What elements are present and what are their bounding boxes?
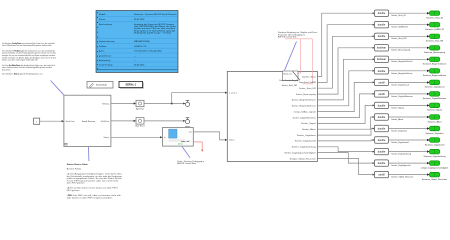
annotation: left description text (2, 42, 57, 76)
svg-text:RXData: RXData (102, 102, 110, 105)
svg-text:Sortier_Start_NR: Sortier_Start_NR (282, 84, 298, 87)
data type conversion block row 10: double (375, 114, 389, 120)
wire: row 10 to outport (389, 116, 430, 118)
wire: row 8 to outport (389, 93, 430, 95)
data type conversion block row 7: uint8 (375, 79, 389, 85)
signal label Sortier_Objekt_Flausche (391, 176, 414, 179)
svg-text:geändert von:: geändert von: (99, 54, 112, 57)
svg-text:DatenFeld_SollNR: DatenFeld_SollNR (299, 81, 316, 84)
svg-text:Sortier_Abort: Sortier_Abort (302, 128, 316, 131)
big block output port 12 label (295, 140, 317, 143)
outport (green) Sortieren_Digitalezahl (425, 138, 445, 147)
wire: row 6 to outport (389, 70, 430, 72)
svg-text:Beschreibung:: Beschreibung: (99, 23, 113, 26)
outport (green) Sortieren_DigitaleLauf (425, 80, 445, 89)
wire: row 14 to outport (389, 162, 430, 164)
svg-text:Sortieren_DigitaleLauf: Sortieren_DigitaleLauf (425, 86, 445, 89)
big block output port 8 label (293, 116, 316, 119)
subsystem: camera viewer (blue icon) (163, 128, 194, 147)
data type conversion block row 5: boolean (375, 56, 389, 62)
svg-text:ASPICE Control Hub: ASPICE Control Hub (278, 36, 297, 39)
svg-text:Serial Defaults: Serial Defaults (96, 84, 107, 87)
svg-text:FIFO gelesen.: FIFO gelesen. (67, 190, 80, 192)
terminator 2 (183, 118, 190, 128)
block: SERIAL-1 (with drop shadow) (119, 81, 144, 88)
svg-text:double: double (378, 151, 386, 154)
svg-text:Sortier_Signal: Sortier_Signal (301, 122, 316, 125)
big block output port 3 label (299, 87, 316, 90)
table line number ticks (97, 12, 98, 69)
svg-text:Sortieren_Bevorzugung: Sortieren_Bevorzugung (424, 51, 445, 54)
big block output port 13 label (292, 146, 316, 149)
signal label Sortier_DigitaleLauf (391, 83, 409, 86)
svg-text:double: double (378, 35, 386, 38)
big block output port 1 label (302, 75, 316, 78)
svg-text:Tim Schreiber, Christoph Barr: Tim Schreiber, Christoph Barr (134, 50, 162, 53)
svg-text:sortiger_Digitalgeschwindigkei: sortiger_Digitalgeschwindigkeit (421, 166, 449, 169)
svg-text:uint8: uint8 (378, 81, 385, 84)
wire: row 15 to outport (389, 173, 430, 175)
data type conversion block row 2: double (375, 22, 389, 28)
wire: big-block port 12 to row 12 (317, 139, 374, 141)
svg-text:Der Interfaces Status gibt die: Der Interfaces Status gibt die Empfangss… (2, 73, 43, 76)
outport (green) Sortieren_SollNR_IN (425, 22, 444, 31)
wire: byte block2 to terminator 2 (144, 120, 184, 122)
signal label Sortier_Signal (391, 106, 404, 109)
svg-text:Sortier_Digitalezahl: Sortier_Digitalezahl (295, 140, 317, 143)
wire: row 5 to outport (389, 58, 430, 60)
svg-text:pass_fail: pass_fail (181, 141, 189, 143)
annotation: subsystem label (177, 160, 204, 165)
annotation connector: left text to Serial Receive corner (blue) (51, 81, 64, 95)
annotation connector: subsystem to label (blue) (182, 147, 190, 158)
svg-text:SerWrtData: SerWrtData (101, 120, 110, 123)
svg-text:Sortier_Start: Sortier_Start (302, 75, 316, 78)
svg-text:Bearbeitung:: Bearbeitung: (99, 59, 111, 62)
outport (green) Sortieren_Digitalrichtung (424, 149, 446, 158)
svg-text:Sortier_DigitaleNummer: Sortier_DigitaleNummer (391, 95, 413, 98)
signal label Sortier_BeginnInitKreuz (391, 72, 412, 75)
svg-text:double: double (378, 12, 386, 15)
svg-text:Sortier_SollNR_IN: Sortier_SollNR_IN (391, 26, 408, 29)
svg-text:Sortier_Start_IN: Sortier_Start_IN (391, 14, 406, 17)
annotation: status return value text (67, 163, 123, 199)
wire: subsystem out to big block Daten port (193, 132, 227, 141)
big block output port 2 label (299, 81, 316, 84)
outport (green) Sortieren_Signal (427, 103, 442, 112)
svg-text:Sortier_Digitalezahl: Sortier_Digitalezahl (391, 141, 409, 144)
svg-text:Sortier_Objekt_Flausche: Sortier_Objekt_Flausche (391, 176, 414, 179)
outport (green) Sortieren_Digitalezu (425, 126, 443, 135)
svg-text:Sortier_Bevorzugung: Sortier_Bevorzugung (391, 49, 410, 52)
svg-text:Sortieren_Abort: Sortieren_Abort (427, 120, 441, 123)
svg-text:Serial Data: Serial Data (66, 120, 76, 123)
svg-text:Toolbox:: Toolbox: (99, 46, 107, 48)
wire: big-block port 3 to row 3 (317, 35, 374, 88)
corner tag box on big block (279, 71, 300, 87)
wire: big-block port 1 to row 1 (317, 12, 374, 76)
signal label Sortier_Start_IN (391, 14, 406, 17)
annotation connector: Serial Receive to status text (blue) (88, 147, 90, 161)
svg-text:Sortier_Digitalezu: Sortier_Digitalezu (391, 129, 407, 132)
svg-text:Sortier_Bevorzugung: Sortier_Bevorzugung (296, 93, 316, 96)
data type conversion block row 3: double (375, 33, 389, 39)
annotation table (blue info box) (96, 11, 178, 73)
svg-text:konnten.: konnten. (2, 69, 11, 72)
svg-text:Sortier_DigitaleLauf: Sortier_DigitaleLauf (391, 83, 409, 86)
wire: row 4 to outport (389, 47, 430, 49)
svg-text:Sortieren_SollNR_IN: Sortieren_SollNR_IN (425, 28, 444, 31)
svg-text:uint8: uint8 (378, 174, 385, 177)
svg-text:Daten aus dem vorherigen Verbi: Daten aus dem vorherigen Verbindet voll. (2, 59, 38, 62)
svg-text:Sortieren_Digitalezahl: Sortieren_Digitalezahl (425, 143, 445, 146)
svg-text:Letzte Prüfung:: Letzte Prüfung: (99, 64, 113, 67)
data type conversion block row 1: double (375, 10, 389, 16)
svg-text:merge_InitAck_signale: merge_InitAck_signale (294, 110, 317, 113)
svg-text:Sortieren_DigitaleNummer: Sortieren_DigitaleNummer (423, 97, 447, 100)
svg-text:Sortieren_Digitalrichtung: Sortieren_Digitalrichtung (424, 155, 446, 158)
wire: row 12 to outport (389, 139, 430, 141)
wire: dangling (red) from subsystem (193, 142, 203, 152)
svg-text:Status Return Value: Status Return Value (67, 163, 89, 166)
svg-text:09.05.2023: 09.05.2023 (134, 65, 145, 67)
data type conversion block row 6: double (375, 68, 389, 74)
svg-text:Sortier_Signal: Sortier_Signal (391, 106, 404, 109)
wire: row 11 to outport (389, 127, 430, 129)
big block output port 4 label (296, 93, 316, 96)
signal label Sortier_BeginnInitDurch (391, 60, 412, 63)
svg-text:Daten: Daten (229, 139, 234, 142)
svg-text:eines Datenstromes aus der Ver: eines Datenstromes aus der Verbindungsfä… (2, 44, 52, 47)
svg-text:Sortier_BeginnInitKreuz: Sortier_BeginnInitKreuz (391, 72, 412, 75)
data type conversion block row 12: double (375, 137, 389, 143)
big block output port 10 label (302, 128, 316, 131)
svg-text:Status: Status (104, 136, 110, 139)
svg-text:Sortier_Digitalezu: Sortier_Digitalezu (297, 134, 316, 137)
data type conversion block row 11: double (375, 125, 389, 131)
signal label Sortier_Bevorzugung (391, 49, 410, 52)
wire: big-block port 10 to row 10 (317, 116, 374, 129)
signal label Sortier_SollNR_IN (391, 26, 408, 29)
wire: big-block port 4 to row 4 (317, 47, 374, 94)
svg-text:Sortieren_Digitalezu: Sortieren_Digitalezu (425, 132, 443, 135)
big block output port 14 label (284, 151, 316, 154)
wire: big-block port 5 to row 5 (317, 58, 374, 100)
svg-text:Sortier_Start_NR: Sortier_Start_NR (391, 37, 407, 40)
wire: row 7 to outport (389, 81, 430, 83)
outport (green) Sortieren_BeginnInitKreuz (423, 69, 446, 78)
svg-text:Sortier_BeginnInitDurch: Sortier_BeginnInitDurch (292, 99, 316, 102)
svg-text:DatenTransferNegativ: DatenTransferNegativ (279, 79, 298, 82)
svg-text:Byte Rev1: Byte Rev1 (135, 125, 145, 128)
wire: row 3 to outport (389, 35, 430, 37)
svg-text:Sortier_Abort: Sortier_Abort (391, 118, 403, 121)
wire: big-block port 6 to row 6 (317, 70, 374, 106)
byte reversal block 1 (136, 100, 144, 110)
svg-text:double: double (378, 104, 386, 107)
data type conversion block row 15: uint8 (375, 171, 389, 177)
signal label Sortier_DigitaleNummer (391, 95, 413, 98)
big demux subsystem block (227, 71, 317, 161)
outport (green) Sortieren_Bevorzugung (424, 46, 445, 55)
outport (green) Sortieren_Start_IN (426, 11, 443, 20)
annotation connectors (red) (285, 39, 313, 84)
wire: big-block port 15 to row 15 (317, 159, 374, 176)
svg-text:Sortier_BeginnInitKreuz: Sortier_BeginnInitKreuz (292, 105, 316, 108)
svg-text:s_cam_s: s_cam_s (229, 93, 237, 95)
wire: big-block port 13 to row 13 (317, 147, 374, 153)
outport (green) Sortieren_Abort (427, 115, 441, 124)
svg-text:Datum:: Datum: (99, 18, 106, 21)
svg-text:Sortieren_Signal: Sortieren_Signal (427, 109, 442, 112)
data type conversion block row 9: double (375, 102, 389, 108)
big block output port 7 label (294, 110, 317, 113)
svg-text:09.05.2023: 09.05.2023 (134, 19, 145, 21)
big block output port 11 label (297, 134, 316, 137)
svg-text:Sortier_Digitalrichtung: Sortier_Digitalrichtung (292, 146, 316, 149)
svg-text:0: Kein Fehler: 0: Kein Fehler (67, 168, 82, 171)
svg-text:SERIAL-1: SERIAL-1 (126, 84, 137, 87)
svg-text:[5ms]: [5ms] (178, 144, 183, 146)
big block output port 15 label (290, 157, 316, 160)
svg-text:MATLAB R2019b: MATLAB R2019b (134, 40, 151, 43)
wire: row 2 to outport (389, 24, 430, 26)
svg-text:(Puffergröße gut NK Länge: ~1: (Puffergröße gut NK Länge: ~1 Paket) (134, 32, 171, 35)
svg-text:Sortiger_Objekt_Flauschen: Sortiger_Objekt_Flauschen (290, 157, 316, 160)
wire: byte block1 to terminator 1, tee to big block (144, 92, 227, 105)
block: Serial Defaults (serial configuration) (87, 81, 113, 88)
wire: big-block port 9 to row 9 (317, 104, 374, 123)
svg-text:Autor:: Autor: (99, 50, 105, 53)
terminator 1 (183, 100, 189, 106)
byte reversal block 2 (135, 118, 145, 128)
wire: inport to Serial Receive (40, 120, 64, 122)
signal label Sortier_Abort (391, 118, 403, 121)
svg-text:Sortieren_Start_IN: Sortieren_Start_IN (426, 17, 443, 20)
svg-text:uint8: uint8 (378, 93, 385, 96)
svg-text:out: out (189, 131, 192, 134)
svg-text:Modell:: Modell: (99, 14, 106, 16)
svg-text:Serial Receive: Serial Receive (82, 120, 96, 123)
svg-text:double: double (378, 139, 386, 142)
svg-text:Sortieren_Objekt_Flauschen: Sortieren_Objekt_Flauschen (422, 178, 447, 181)
data type conversion block row 14: double (375, 160, 389, 166)
svg-text:double: double (378, 116, 386, 119)
wire: Serial Receive Status to camera subsystem (111, 136, 163, 138)
svg-text:Sortieren_BeginnInitKreuz: Sortieren_BeginnInitKreuz (423, 74, 446, 77)
svg-text:ASPICE Control Base: ASPICE Control Base (177, 162, 197, 165)
outport (green) Sortieren_DigitaleNummer (423, 92, 447, 101)
svg-text:Sortier_Digitalrichtung: Sortier_Digitalrichtung (391, 153, 411, 156)
big block output port 6 label (292, 105, 316, 108)
svg-text:boolean: boolean (377, 58, 387, 61)
svg-text:Sortier_BeginnInitDurch: Sortier_BeginnInitDurch (391, 60, 412, 63)
wire: big-block port 11 to row 11 (317, 128, 374, 136)
wire: big-block port 2 to row 2 (317, 24, 374, 83)
wire: Serial Receive SerWrtData to byte block 2 (111, 120, 136, 122)
wire: row 13 to outport (389, 150, 430, 152)
svg-text:Sortier_Digitalgeschw: Sortier_Digitalgeschw (391, 164, 411, 167)
wire: row 1 to outport (389, 12, 430, 14)
signal label Sortier_Digitalgeschw (391, 164, 411, 167)
svg-text:Sortieren - Kamera MV222 Seria: Sortieren - Kamera MV222 Serial Receive (134, 13, 177, 16)
wire: big-block port 8 to row 8 (317, 93, 374, 118)
svg-text:alle Daten in den FIFO kopiert: alle Daten in den FIFO kopiert werden. (67, 196, 114, 199)
wire: big-block port 14 to row 14 (317, 153, 374, 165)
wire: row 9 to outport (389, 104, 430, 106)
outport (green) Sortieren_Objekt_Flauschen (422, 172, 447, 181)
data type conversion block row 8: uint8 (375, 91, 389, 97)
signal label Sortier_Digitalezu (391, 129, 407, 132)
outport (green) Sortieren_BeginnInitDurch (423, 57, 446, 66)
wire: big-block port 7 to row 7 (317, 81, 374, 111)
block: Serial Receive (64, 95, 111, 146)
big block output port 5 label (292, 99, 316, 102)
svg-text:Byte Rev: Byte Rev (136, 107, 144, 110)
svg-text:xSPACE VTS: xSPACE VTS (134, 45, 147, 48)
inport block 1 (34, 118, 40, 124)
outport (green) sortiger_Digitalgeschwindigkeit (421, 161, 449, 170)
big block output port 9 label (301, 122, 316, 125)
svg-text:double: double (378, 70, 386, 73)
svg-text:double: double (378, 24, 386, 27)
svg-text:Serial_rec: Serial_rec (283, 73, 292, 76)
svg-text:dann FIFO gelesen.: dann FIFO gelesen. (67, 183, 85, 185)
svg-text:boolean: boolean (377, 47, 387, 50)
svg-text:In: In (164, 137, 166, 139)
svg-text:double: double (378, 127, 386, 130)
svg-text:Implementierung:: Implementierung: (99, 40, 115, 43)
svg-text:Sortier_Start_NR: Sortier_Start_NR (299, 87, 316, 90)
signal label Sortier_Start_NR (391, 37, 407, 40)
svg-text:Sortieren_Start_NR: Sortieren_Start_NR (426, 40, 444, 43)
wire: Serial Receive RXData to byte block 1 (111, 102, 136, 104)
annotation: note text above big block (278, 31, 318, 38)
svg-text:Sortieren_BeginnInitDurch: Sortieren_BeginnInitDurch (423, 63, 446, 66)
data type conversion block row 4: boolean (375, 45, 389, 51)
signal label Sortier_Digitalrichtung (391, 153, 411, 156)
svg-text:double: double (378, 162, 386, 165)
data type conversion block row 13: double (375, 148, 389, 154)
annotation connector (blue) to corner tag (285, 42, 297, 71)
svg-text:Sortier_DigitaleNummer: Sortier_DigitaleNummer (293, 116, 316, 119)
outport (green) Sortieren_Start_NR (426, 34, 444, 43)
svg-text:Sortier_Digitalgeschwindigkeit: Sortier_Digitalgeschwindigkeit (284, 151, 316, 154)
signal label Sortier_Digitalezahl (391, 141, 409, 144)
